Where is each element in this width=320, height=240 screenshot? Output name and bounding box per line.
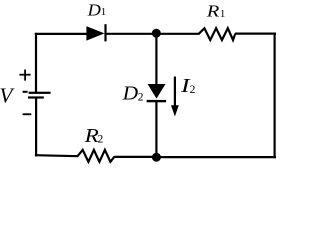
svg-text:D: D: [86, 1, 100, 20]
wire: from top node to R1: [156, 33, 199, 35]
label I2: [180, 76, 196, 97]
battery plus sign: [19, 70, 30, 81]
svg-text:2: 2: [190, 84, 196, 96]
wire: bottom-right segment from corner to bottom node: [157, 156, 277, 158]
battery V: short (negative) plate: [28, 96, 44, 98]
resistor R2 (zigzag): [77, 150, 114, 162]
label R1: [206, 2, 226, 21]
svg-text:R: R: [206, 2, 220, 21]
node: top junction dot: [152, 29, 161, 38]
wire: from R1 to top-right corner: [235, 32, 276, 34]
svg-text:D: D: [122, 83, 139, 105]
node: bottom junction dot: [152, 153, 161, 162]
wire: left side above battery: [35, 33, 37, 93]
svg-text:1: 1: [220, 8, 226, 20]
label R2: [83, 125, 103, 147]
svg-text:2: 2: [138, 91, 144, 103]
wire: right side vertical: [274, 33, 276, 159]
wire: top-left segment from left corner to D1 anode: [35, 33, 87, 35]
svg-text:1: 1: [101, 6, 107, 18]
wire: from D1 cathode to top node: [106, 33, 158, 35]
wire: left side below battery: [35, 98, 37, 157]
svg-text:2: 2: [98, 134, 104, 146]
svg-text:R: R: [83, 125, 98, 147]
wire: middle branch from top node to D2: [155, 33, 157, 85]
wire: from R2 to bottom-left corner: [35, 155, 78, 156]
wire: middle branch from D2 to bottom node: [155, 101, 157, 157]
resistor R1 (zigzag): [199, 28, 236, 40]
label D1: [86, 1, 106, 20]
battery V: long (positive) plate with small leading dash: [23, 91, 51, 94]
current arrow I2 (downward): [171, 77, 179, 117]
diode D1 (triangle pointing right): [86, 24, 106, 41]
label D2: [122, 83, 144, 105]
battery minus sign: [23, 113, 32, 115]
diode D2 (triangle pointing down): [147, 84, 167, 102]
wire: from bottom node to R2: [114, 156, 156, 158]
